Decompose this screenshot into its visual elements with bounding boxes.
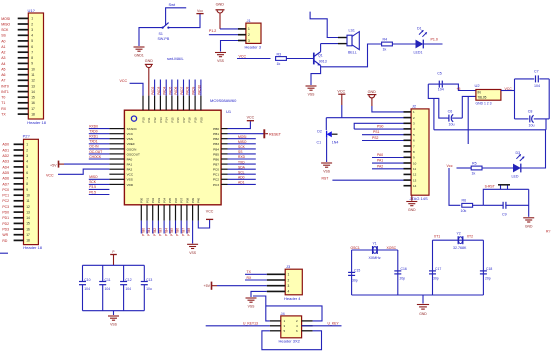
capacitor C10 xyxy=(79,265,91,310)
wire XTAL1 right leg xyxy=(397,250,399,295)
wire D3 up to bus xyxy=(521,130,546,168)
wire J2 pin5 xyxy=(362,134,404,136)
svg-text:11: 11 xyxy=(26,199,30,203)
svg-text:PB4: PB4 xyxy=(213,147,219,151)
wire VCC to pin xyxy=(130,83,143,95)
wire stub left edge xyxy=(0,252,8,254)
svg-text:PTB6: PTB6 xyxy=(176,228,180,236)
svg-text:7: 7 xyxy=(31,51,33,55)
svg-text:10u: 10u xyxy=(146,287,152,291)
svg-text:GND: GND xyxy=(419,312,427,316)
svg-text:PB7: PB7 xyxy=(213,163,219,167)
svg-text:P38: P38 xyxy=(185,197,189,203)
svg-text:VSS: VSS xyxy=(110,323,118,327)
ground xyxy=(215,53,226,64)
svg-text:Vcc: Vcc xyxy=(447,164,453,168)
wire VCC to R3 xyxy=(237,58,271,60)
wire J2 pin9 xyxy=(372,157,404,159)
net labels left xyxy=(89,124,102,194)
wire VCC to J2 pin2 xyxy=(341,105,343,118)
svg-text:17: 17 xyxy=(26,233,30,237)
svg-text:INT1: INT1 xyxy=(1,90,9,94)
svg-text:SS: SS xyxy=(1,34,6,38)
svg-text:SCK: SCK xyxy=(89,180,97,184)
svg-text:GND 1 2 3: GND 1 2 3 xyxy=(476,102,492,106)
svg-text:P1.0: P1.0 xyxy=(431,37,438,41)
svg-text:PA2: PA2 xyxy=(127,168,133,172)
svg-text:RXD1: RXD1 xyxy=(89,135,98,139)
crystal Y2 xyxy=(453,231,467,249)
svg-text:PTB8: PTB8 xyxy=(187,228,191,236)
svg-text:VSS: VSS xyxy=(308,93,316,97)
resistor R4 xyxy=(382,37,393,51)
net labels top xyxy=(151,85,201,95)
svg-text:P12: P12 xyxy=(153,117,157,123)
svg-text:MISO: MISO xyxy=(238,140,247,144)
svg-text:A4: A4 xyxy=(1,62,5,66)
svg-text:A0: A0 xyxy=(1,39,5,43)
svg-text:AD7: AD7 xyxy=(2,182,9,186)
svg-text:MOSI: MOSI xyxy=(238,135,247,139)
svg-text:A6: A6 xyxy=(1,73,5,77)
svg-text:P: P xyxy=(112,250,114,254)
MCU bottom pins xyxy=(141,205,198,221)
svg-text:P18: P18 xyxy=(188,117,192,123)
svg-text:RXD0: RXD0 xyxy=(89,124,98,128)
svg-text:PD1: PD1 xyxy=(2,216,9,220)
power GND port xyxy=(216,3,225,29)
svg-text:PTB1: PTB1 xyxy=(147,228,151,236)
svg-text:swt-MAIL: swt-MAIL xyxy=(167,56,184,61)
svg-text:XT2: XT2 xyxy=(467,234,473,238)
svg-text:AD2: AD2 xyxy=(2,154,9,158)
svg-text:PD2: PD2 xyxy=(2,222,9,226)
wire J2 pin11 xyxy=(372,168,404,170)
svg-text:GND: GND xyxy=(408,208,416,212)
LED D3 xyxy=(512,151,525,179)
wire gnd loop left xyxy=(428,84,447,118)
resistor R5 xyxy=(471,161,482,175)
svg-text:11: 11 xyxy=(31,73,35,77)
svg-text:3: 3 xyxy=(31,28,33,32)
wire bus drop xyxy=(467,130,469,144)
svg-text:P32: P32 xyxy=(151,197,155,203)
svg-text:P14: P14 xyxy=(165,117,169,123)
svg-text:PD0: PD0 xyxy=(2,211,9,215)
wire Vcc down to R6 xyxy=(449,168,460,205)
svg-text:P37: P37 xyxy=(180,197,184,203)
svg-text:Y2: Y2 xyxy=(457,231,461,235)
svg-text:P2?: P2? xyxy=(23,134,31,139)
wire U_KEY13 xyxy=(206,325,270,327)
svg-text:AD6: AD6 xyxy=(2,177,9,181)
svg-text:PA1: PA1 xyxy=(377,159,383,163)
svg-text:VSS: VSS xyxy=(323,170,331,174)
wire pin to ground xyxy=(192,221,194,244)
svg-text:U1?: U1? xyxy=(28,8,36,13)
svg-text:VCC: VCC xyxy=(127,173,134,177)
svg-text:C6: C6 xyxy=(448,110,453,114)
svg-text:18: 18 xyxy=(26,239,30,243)
svg-text:4: 4 xyxy=(288,290,290,294)
wire speaker bottom lead xyxy=(321,43,338,45)
wire GND to J2 pin1 xyxy=(372,106,404,112)
svg-text:XXMHz: XXMHz xyxy=(369,256,381,260)
svg-text:PS0: PS0 xyxy=(377,125,384,129)
svg-text:VCC: VCC xyxy=(206,209,214,213)
svg-text:C12: C12 xyxy=(125,278,131,282)
wires MCU top nets xyxy=(155,80,201,96)
svg-text:VSS: VSS xyxy=(127,178,133,182)
switch S1 xyxy=(158,23,170,41)
wire to J1 pin2 xyxy=(209,34,246,36)
svg-text:OC-OUT: OC-OUT xyxy=(89,150,102,154)
svg-text:PTB4: PTB4 xyxy=(164,228,168,236)
svg-text:PTB2: PTB2 xyxy=(153,228,157,236)
capacitor C7 xyxy=(534,70,540,88)
wires MCU bottom nets xyxy=(141,221,187,234)
LED D1 xyxy=(414,26,428,54)
svg-text:VCC: VCC xyxy=(239,54,247,58)
connector P1 xyxy=(1,8,47,125)
wire junction to J4 xyxy=(253,296,270,321)
svg-text:R3: R3 xyxy=(277,53,282,57)
header J4 xyxy=(270,311,313,344)
svg-text:LED1: LED1 xyxy=(414,50,423,54)
svg-text:13: 13 xyxy=(413,178,417,182)
svg-text:P39: P39 xyxy=(191,197,195,203)
svg-text:P35: P35 xyxy=(168,197,172,203)
svg-text:Vcc: Vcc xyxy=(197,9,203,13)
power bar RESET xyxy=(264,129,281,138)
speaker LS1 xyxy=(347,28,359,54)
net labels right xyxy=(238,135,247,185)
wire C5 to regulator IN xyxy=(443,84,476,90)
ground xyxy=(108,316,119,327)
svg-text:3: 3 xyxy=(248,39,250,43)
svg-text:P3.5: P3.5 xyxy=(89,185,96,189)
svg-text:VCC: VCC xyxy=(337,89,345,93)
ground xyxy=(134,47,145,58)
svg-text:MOSI: MOSI xyxy=(1,17,10,21)
svg-text:6: 6 xyxy=(31,45,33,49)
svg-text:TXD0: TXD0 xyxy=(89,130,98,134)
wire R5 to D3 xyxy=(482,167,513,169)
ground xyxy=(321,163,332,174)
wire common ground stem xyxy=(422,295,424,304)
svg-text:U2: U2 xyxy=(475,83,481,88)
connector J2 JTAG xyxy=(404,104,430,201)
capacitor C18 xyxy=(480,267,492,280)
header J1 xyxy=(238,18,262,49)
wire R4 to D1 xyxy=(392,43,415,45)
wire bottom loop xyxy=(262,331,322,350)
wire U_KEY xyxy=(302,325,342,327)
svg-text:10: 10 xyxy=(26,194,30,198)
svg-text:C16: C16 xyxy=(401,267,407,271)
wires MCU left nets xyxy=(89,129,110,195)
svg-text:+5V: +5V xyxy=(204,284,211,288)
diode D2 xyxy=(317,130,339,145)
MCU top pins xyxy=(143,96,201,111)
wire left bus link xyxy=(433,98,435,129)
capacitor C6 xyxy=(447,110,462,127)
svg-text:VSS: VSS xyxy=(248,304,256,308)
svg-text:PC0: PC0 xyxy=(213,168,219,172)
resistor R6 xyxy=(461,199,473,213)
svg-text:1: 1 xyxy=(288,273,290,277)
svg-text:PB3: PB3 xyxy=(213,142,219,146)
power GND dome xyxy=(145,59,153,95)
svg-text:17: 17 xyxy=(31,107,35,111)
svg-text:PC3: PC3 xyxy=(2,205,9,209)
resistor R3 xyxy=(276,53,287,67)
wire J2 pin10 xyxy=(372,162,404,164)
wire XTAL2 top xyxy=(433,239,484,241)
svg-text:P33: P33 xyxy=(157,197,161,203)
wire XTAL2 right leg xyxy=(482,240,484,295)
svg-text:9: 9 xyxy=(26,188,28,192)
svg-text:PA1: PA1 xyxy=(127,163,133,167)
svg-text:RXD: RXD xyxy=(238,155,246,159)
svg-text:104: 104 xyxy=(438,87,444,91)
wire R6 to node xyxy=(473,204,484,206)
svg-text:5: 5 xyxy=(31,39,33,43)
svg-text:PAD6: PAD6 xyxy=(174,86,178,94)
wire TX xyxy=(245,273,267,275)
ground xyxy=(417,305,429,316)
svg-text:78L05: 78L05 xyxy=(478,96,487,100)
wire J2 ground stem xyxy=(411,195,413,201)
svg-text:20p: 20p xyxy=(485,277,491,281)
svg-text:AD0: AD0 xyxy=(2,143,9,147)
svg-text:14: 14 xyxy=(413,184,417,188)
wire XTAL1 top xyxy=(352,249,398,251)
wire reg GND down to bus xyxy=(467,96,469,129)
svg-text:TX: TX xyxy=(247,270,252,274)
svg-text:C5: C5 xyxy=(437,72,442,76)
svg-text:P20: P20 xyxy=(199,117,203,123)
svg-text:PAD9: PAD9 xyxy=(192,86,196,94)
svg-text:11: 11 xyxy=(413,167,416,171)
wire cap bank bottom rail xyxy=(83,310,145,312)
svg-text:AD1: AD1 xyxy=(2,148,9,152)
power VCC xyxy=(206,209,214,219)
svg-text:SW-PB: SW-PB xyxy=(158,37,170,41)
svg-text:PC2: PC2 xyxy=(213,178,219,182)
capacitor C16 xyxy=(394,267,407,280)
svg-text:2: 2 xyxy=(288,278,290,282)
svg-text:PAD7: PAD7 xyxy=(180,86,184,94)
svg-text:R6: R6 xyxy=(462,199,467,203)
svg-text:TXD: TXD xyxy=(238,160,245,164)
svg-text:PAD3: PAD3 xyxy=(157,86,161,94)
svg-text:RESET: RESET xyxy=(269,132,282,136)
capacitor C12 xyxy=(120,265,132,310)
svg-text:13: 13 xyxy=(26,210,30,214)
svg-text:C1: C1 xyxy=(317,140,322,144)
svg-text:U_KEY13: U_KEY13 xyxy=(243,321,258,325)
svg-text:3: 3 xyxy=(26,154,28,158)
svg-text:Header 18: Header 18 xyxy=(23,245,42,250)
capacitor C5 xyxy=(428,72,444,92)
wire XTAL1 left leg xyxy=(351,250,353,295)
svg-text:P30: P30 xyxy=(140,197,144,203)
wire XTAL2 left leg xyxy=(432,240,434,295)
svg-text:PB6: PB6 xyxy=(213,157,219,161)
wire emitter to ground xyxy=(311,65,321,85)
wire reset loop xyxy=(483,189,528,205)
wire to J1 pin1 xyxy=(220,28,246,30)
svg-text:VDD: VDD xyxy=(127,183,134,187)
svg-text:PC1: PC1 xyxy=(213,173,219,177)
wire Vcc to R5 xyxy=(457,167,472,169)
wire output cap loop xyxy=(514,79,516,119)
svg-text:PS1: PS1 xyxy=(373,130,380,134)
wire ground stem xyxy=(113,311,115,315)
svg-text:P15: P15 xyxy=(170,117,174,123)
svg-text:P19: P19 xyxy=(194,117,198,123)
svg-text:4: 4 xyxy=(31,34,33,38)
crystal Y1 xyxy=(369,242,381,261)
svg-text:AD4: AD4 xyxy=(2,165,9,169)
svg-text:PB5: PB5 xyxy=(213,152,219,156)
MCU U1 xyxy=(124,98,237,205)
svg-text:1k: 1k xyxy=(277,62,281,66)
svg-text:PC1: PC1 xyxy=(2,194,9,198)
svg-text:+5V: +5V xyxy=(50,164,57,168)
svg-text:P11: P11 xyxy=(147,117,151,122)
wire loop to bus xyxy=(545,119,547,130)
wire ground bus xyxy=(434,129,546,131)
wire J2 pin3 xyxy=(354,123,403,129)
wire J2 pin2 long xyxy=(326,117,403,119)
svg-text:+5: +5 xyxy=(457,87,461,91)
capacitor C17 xyxy=(429,267,441,280)
svg-text:P31: P31 xyxy=(145,197,149,203)
svg-text:4: 4 xyxy=(26,160,28,164)
svg-text:P40: P40 xyxy=(197,197,201,203)
svg-text:PC3: PC3 xyxy=(213,183,219,187)
svg-text:13: 13 xyxy=(31,84,35,88)
svg-text:VCC: VCC xyxy=(247,115,255,119)
svg-text:PS2: PS2 xyxy=(372,136,379,140)
wire RX xyxy=(245,279,267,281)
wire +5V to pin xyxy=(64,163,109,165)
svg-text:RD: RD xyxy=(2,239,7,243)
svg-text:15: 15 xyxy=(31,96,35,100)
svg-text:A7: A7 xyxy=(1,79,5,83)
svg-text:Header 3X2: Header 3X2 xyxy=(279,339,301,344)
wire D1 to net xyxy=(423,43,442,45)
power VCC port xyxy=(337,89,345,105)
svg-text:104: 104 xyxy=(534,84,540,88)
ground xyxy=(246,298,257,308)
svg-text:P34: P34 xyxy=(163,197,167,203)
MCU left pins xyxy=(109,129,124,185)
svg-text:VCC: VCC xyxy=(120,79,128,83)
svg-text:32.768K: 32.768K xyxy=(453,246,467,250)
wire collector to speaker xyxy=(320,44,322,52)
svg-text:10u: 10u xyxy=(449,123,455,127)
net labels bottom xyxy=(142,228,192,236)
svg-text:P1.2: P1.2 xyxy=(209,29,216,33)
svg-text:INT0: INT0 xyxy=(1,84,9,88)
capacitor C9 xyxy=(502,202,529,217)
wire node to ground xyxy=(528,189,530,217)
svg-text:PAD4: PAD4 xyxy=(163,86,167,94)
svg-text:Y1: Y1 xyxy=(373,242,377,246)
svg-text:104: 104 xyxy=(84,287,90,291)
svg-text:1: 1 xyxy=(26,143,28,147)
svg-text:D1: D1 xyxy=(417,26,422,30)
wire pin4 to ground xyxy=(251,291,267,297)
svg-text:Header 3: Header 3 xyxy=(245,44,262,49)
svg-text:LED: LED xyxy=(512,175,519,179)
svg-text:2: 2 xyxy=(26,148,28,152)
svg-text:GND: GND xyxy=(368,90,377,94)
svg-text:A2: A2 xyxy=(1,51,5,55)
svg-text:PTB7: PTB7 xyxy=(181,228,185,236)
power VCC xyxy=(196,9,203,13)
wire reset bottom branch xyxy=(483,204,503,206)
svg-text:OSC1: OSC1 xyxy=(351,246,360,250)
wire pin2 RESET xyxy=(228,133,264,135)
capacitor C15 xyxy=(348,269,360,283)
power port +5V xyxy=(204,282,218,290)
svg-text:PTB5: PTB5 xyxy=(170,228,174,236)
wire VCC jog to pin xyxy=(58,169,109,174)
svg-text:P0.5: P0.5 xyxy=(89,190,96,194)
svg-text:WR: WR xyxy=(2,233,8,237)
svg-text:GND: GND xyxy=(145,59,153,63)
svg-text:OSCOUT: OSCOUT xyxy=(127,152,140,156)
svg-text:C11: C11 xyxy=(105,278,111,282)
svg-text:1N4: 1N4 xyxy=(332,140,339,144)
svg-text:10k: 10k xyxy=(461,209,467,213)
svg-text:SCK: SCK xyxy=(238,145,246,149)
power VCC xyxy=(247,115,255,120)
svg-text:RX: RX xyxy=(247,276,252,280)
svg-text:D3: D3 xyxy=(516,151,521,155)
MCU right pins xyxy=(221,129,227,185)
wire cap bank top rail xyxy=(83,264,145,266)
power port +5V row xyxy=(50,161,64,168)
wire R3 to Q1 base xyxy=(286,58,313,60)
svg-text:12: 12 xyxy=(26,205,30,209)
svg-text:Swt: Swt xyxy=(169,2,177,7)
wire J2 pin4 xyxy=(354,128,403,130)
svg-text:C13: C13 xyxy=(146,278,152,282)
capacitor C11 xyxy=(99,265,110,310)
svg-text:10u: 10u xyxy=(529,124,535,128)
svg-text:TX: TX xyxy=(1,113,6,117)
svg-text:PAD10: PAD10 xyxy=(197,85,201,95)
svg-text:12: 12 xyxy=(413,173,417,177)
svg-text:RX: RX xyxy=(1,107,7,111)
svg-text:PTB0: PTB0 xyxy=(142,228,146,236)
svg-text:P16: P16 xyxy=(176,117,180,123)
wire J1 pin3 to ground xyxy=(221,41,246,52)
svg-text:5: 5 xyxy=(26,165,28,169)
ground xyxy=(306,86,317,97)
svg-text:Header 4: Header 4 xyxy=(284,296,301,301)
wire pin to VCC loop xyxy=(198,220,209,228)
svg-text:C9: C9 xyxy=(502,212,507,216)
svg-text:1: 1 xyxy=(31,17,33,21)
svg-text:14: 14 xyxy=(26,216,30,220)
svg-text:MC9S08AW60: MC9S08AW60 xyxy=(210,98,237,103)
